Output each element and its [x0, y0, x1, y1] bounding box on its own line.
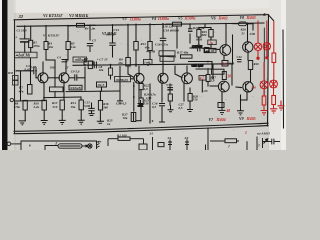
wire x163 below cap — [162, 42, 164, 66]
ground g13 — [237, 103, 244, 115]
svg-text:4,7: 4,7 — [199, 76, 205, 80]
ground g8 — [159, 115, 165, 122]
wire x205 split — [199, 27, 211, 29]
callout 1,5V box — [212, 69, 225, 74]
wire x190 lower — [189, 88, 191, 94]
loop symbol — [58, 144, 82, 148]
wire R19 drop — [210, 28, 212, 30]
svg-text:V1 КТ315Г: V1 КТ315Г — [43, 34, 60, 38]
wire V6 collector up — [225, 24, 227, 45]
svg-text:С13: С13 — [114, 28, 120, 32]
svg-text:27: 27 — [97, 140, 102, 144]
wire R4 rail left stub — [68, 25, 77, 27]
wire R10b drop — [110, 65, 112, 68]
svg-text:С28 0,5: С28 0,5 — [116, 102, 127, 106]
wire R21 to cap — [198, 44, 200, 48]
wire emitter V2 down — [63, 83, 65, 100]
svg-text:П403: П403 — [246, 15, 256, 20]
wire R21 below — [198, 37, 200, 44]
resistor R23 — [139, 98, 143, 105]
wire x100 drop — [99, 91, 101, 100]
svg-text:П308в: П308в — [184, 16, 196, 21]
callout box with red 4,7 — [199, 75, 206, 80]
wire x208 below R37 — [207, 82, 209, 87]
svg-text:R21 1,2к: R21 1,2к — [193, 26, 205, 30]
svg-text:R5: R5 — [84, 57, 88, 61]
scan noise speckles — [15, 20, 269, 150]
wire x162 below cap — [161, 107, 163, 122]
wire x211 below red box — [210, 45, 212, 49]
wire V8 collector up — [247, 24, 249, 42]
svg-text:560: 560 — [103, 105, 108, 109]
svg-text:V9: V9 — [239, 117, 244, 121]
wire x62 lower — [61, 110, 63, 120]
node dot g — [189, 23, 191, 25]
resistor R21 — [197, 30, 201, 38]
svg-text:≂1,5: ≂1,5 — [97, 83, 104, 87]
red resistor upper right — [272, 53, 276, 63]
node dot q — [133, 96, 135, 98]
wire x213 lower — [212, 65, 214, 80]
svg-text:47к: 47к — [18, 90, 24, 94]
wire V5 emitter down — [183, 84, 185, 102]
callout 1,5mV box — [97, 82, 107, 87]
node wire left vertical x20 — [20, 71, 22, 101]
wire V6 emitter down — [223, 56, 225, 61]
red wire right vertical mid — [273, 63, 275, 81]
wire base V6b — [210, 85, 219, 87]
wire emitter output V2 horizontal — [69, 77, 75, 79]
input connector box lower — [13, 81, 19, 86]
node dot c2 — [89, 24, 91, 26]
frame bottom line 2 — [14, 126, 268, 134]
red transistor X3 cross — [261, 81, 268, 88]
callout 0,5mV box — [159, 51, 175, 56]
wire x68 lower — [67, 50, 69, 61]
wire V1-V2 base link — [48, 77, 60, 79]
svg-text:≂0,1В: ≂0,1В — [205, 49, 215, 53]
wire x150 mid — [149, 51, 151, 60]
wire x211 R19 to red box — [210, 37, 212, 40]
red wire below X4 — [273, 88, 275, 96]
red resistor lower left — [262, 96, 266, 105]
svg-text:R4 1,0к: R4 1,0к — [85, 26, 96, 30]
wire R3 to callout — [54, 60, 56, 87]
wire x190 below C18 — [189, 34, 191, 43]
svg-text:+ С7 15: + С7 15 — [97, 58, 108, 62]
wire stage link y69 — [196, 68, 212, 70]
node dot e2 — [149, 24, 151, 26]
wire emitter V1 down — [43, 83, 45, 100]
wire C1 drop from rail — [24, 26, 26, 39]
wire R18 rail stubs — [166, 23, 173, 25]
red transistor X2 circle — [263, 43, 270, 50]
svg-text:510: 510 — [144, 102, 149, 106]
wire cap C2 to base V1 — [35, 71, 37, 78]
svg-text:R40: R40 — [254, 62, 260, 66]
wire x248 resistor low — [250, 70, 252, 83]
resistor x133 low vert — [131, 113, 136, 122]
svg-text:R38: R38 — [229, 62, 235, 66]
svg-text:32: 32 — [18, 14, 24, 19]
capacitor C19 series into V6 — [197, 45, 199, 52]
bottom right cap lead2 — [274, 141, 280, 143]
svg-text:1,0: 1,0 — [211, 79, 215, 83]
resistor R26b vert — [168, 94, 172, 101]
frame bottom line 1 — [14, 123, 268, 131]
book gutter black bar — [2, 0, 8, 150]
node dot l — [135, 64, 137, 66]
frame top — [14, 15, 269, 20]
svg-text:R1 100: R1 100 — [117, 133, 127, 137]
frame right — [268, 15, 269, 126]
svg-text:25В: 25В — [249, 32, 255, 36]
resistor R9 mid — [126, 58, 131, 67]
node dot o — [35, 70, 37, 72]
red transistor X2 cross — [264, 42, 270, 51]
bottom wire x108 vert — [107, 139, 109, 146]
node dot q4a — [43, 97, 45, 99]
wire R26 rail inline stubs — [232, 23, 239, 25]
red blob below X1 — [257, 57, 259, 59]
capacitor C17 small box — [205, 48, 210, 53]
svg-text:48: 48 — [226, 109, 231, 113]
svg-text:510: 510 — [53, 105, 58, 109]
svg-text:680: 680 — [202, 33, 207, 37]
terminal circle bottom left — [7, 142, 11, 146]
svg-text:≂2в(СМ): ≂2в(СМ) — [15, 54, 30, 58]
resistor R16 560 — [98, 101, 102, 111]
capacitor C8 coupling — [74, 74, 76, 80]
wire R1 drop — [30, 26, 32, 40]
capacitor C1 polarized — [20, 38, 30, 40]
node dot d2 — [127, 24, 129, 26]
svg-text:1,6: 1,6 — [223, 62, 228, 66]
capacitor C15 low — [159, 103, 165, 105]
svg-text:0,5: 0,5 — [152, 105, 156, 109]
wire x163 drop — [162, 23, 164, 38]
svg-text:6800: 6800 — [196, 38, 203, 42]
red wire right vertical top — [273, 21, 275, 53]
resistor x148 vert — [148, 42, 152, 51]
svg-text:2Г: 2Г — [64, 65, 69, 69]
ground small x91 — [89, 111, 94, 116]
red resistor lower right — [272, 96, 276, 105]
svg-text:2,2В: 2,2В — [29, 65, 37, 69]
svg-text:по АМ15: по АМ15 — [257, 131, 270, 135]
red transistor X3 circle — [260, 81, 268, 89]
svg-text:5,0В: 5,0В — [84, 104, 90, 108]
svg-text:С1 10,0: С1 10,0 — [17, 29, 28, 33]
ground g7 mid — [138, 100, 144, 107]
wire x141 short — [136, 120, 141, 122]
red ground low mid — [261, 111, 268, 115]
wire x148 below callout — [147, 64, 149, 65]
svg-text:2Д: 2Д — [184, 136, 190, 140]
arrow to circle — [82, 145, 87, 147]
transistor V4 — [158, 73, 168, 83]
wire x133 resistor down — [133, 113, 135, 122]
input connector box upper — [13, 76, 19, 81]
svg-text:П308в: П308в — [157, 16, 169, 21]
capacitor C22 small right — [237, 59, 242, 61]
red stub below X1 — [257, 51, 259, 59]
callout 2v(CM) box — [15, 52, 38, 58]
ground g10 — [187, 104, 193, 112]
wire V3 collector — [138, 66, 140, 73]
capacitor C15 bars — [88, 108, 94, 110]
bottom right cap lead — [263, 141, 272, 143]
wire R3 lower — [45, 50, 47, 61]
red transistor X4 circle — [270, 80, 278, 88]
svg-text:30: 30 — [227, 74, 232, 78]
svg-text:+С26: +С26 — [166, 83, 173, 87]
wire x85 to mid rail — [84, 67, 86, 90]
resistor R17 48k horizontal — [181, 55, 193, 58]
svg-text:П404: П404 — [216, 117, 226, 122]
transistor V1 — [38, 73, 48, 83]
resistor x134 vert — [134, 42, 138, 51]
svg-text:С21 0,25: С21 0,25 — [192, 63, 204, 67]
resistor R18 120 on rail — [173, 22, 182, 26]
wire x170 ground lead — [169, 101, 171, 105]
wire x190 drop C18 — [189, 24, 191, 29]
wire x205 drop — [204, 24, 206, 28]
bottom resistor wire left — [108, 138, 118, 140]
wire interstage x68 — [67, 26, 69, 42]
wire R18 right stub — [182, 23, 191, 25]
left input wire — [16, 70, 34, 72]
node dot k — [110, 64, 112, 66]
node dot b — [45, 25, 47, 27]
lower figure frame top — [21, 141, 97, 150]
red wire to ground left — [263, 105, 265, 110]
capacitor C13 — [109, 42, 115, 44]
wire stage link y61 — [189, 61, 213, 63]
wire R26 right stub — [247, 23, 254, 25]
svg-text:6800Е: 6800Е — [106, 32, 116, 36]
red wire right low — [273, 105, 275, 109]
bottom resistor wire right — [130, 138, 144, 140]
svg-text:П405: П405 — [246, 116, 256, 121]
red stub below X2 — [266, 50, 268, 58]
bottom right capacitor — [272, 139, 274, 145]
wire base V5 — [175, 74, 182, 78]
bottom mid vertical x152 — [152, 137, 154, 150]
wire x134 lower section — [133, 83, 135, 112]
coupling cap C8 lead — [77, 77, 85, 79]
red transistor X1 cross — [255, 44, 261, 50]
red ground right — [270, 109, 277, 113]
wire x177 below R18 — [176, 27, 178, 49]
svg-text:С9 5,0: С9 5,0 — [71, 70, 80, 74]
wire R21 drop — [198, 28, 200, 30]
resistor x248 vert — [248, 61, 252, 70]
wire V4 emitter down — [161, 83, 163, 102]
node dot s — [207, 61, 209, 63]
wire x141 below — [140, 105, 142, 109]
svg-text:220: 220 — [250, 86, 256, 90]
wire x208 R37 — [207, 69, 209, 75]
wire V4 collector — [162, 66, 164, 73]
resistor R13 — [60, 100, 64, 110]
node dot h — [225, 23, 227, 25]
ground g9 — [168, 105, 174, 112]
ground g11 — [219, 103, 226, 115]
svg-text:П308в: П308в — [129, 16, 141, 21]
svg-text:V8: V8 — [240, 16, 245, 20]
wire x112 below cap — [112, 47, 114, 58]
wire x81 lower — [80, 110, 82, 120]
paper background — [0, 0, 286, 150]
callout 0,5mV box lower — [50, 87, 64, 92]
svg-text:≂10мВ: ≂10мВ — [70, 86, 82, 90]
wire x128 drop — [127, 24, 129, 57]
callout 50mV box — [73, 57, 87, 62]
resistor R5h x84 — [84, 61, 93, 65]
callout box with red 1k — [208, 40, 216, 45]
wire V1 collector vertical — [42, 62, 44, 73]
crossed circle connector — [88, 144, 92, 148]
resistor R1 beside C1 — [29, 40, 33, 47]
node dot i — [247, 22, 249, 24]
resistor R28 vert — [188, 94, 192, 102]
bottom right module box — [206, 141, 248, 150]
red wire below X3 — [263, 89, 265, 96]
wire x101 upper — [101, 87, 103, 91]
wire x25 lower — [24, 110, 26, 121]
callout 0M(D) box — [115, 77, 131, 82]
bottom right vertical x257 — [256, 137, 258, 151]
svg-text:С5: С5 — [92, 39, 96, 43]
svg-text:V2 МП41Б: V2 МП41Б — [69, 13, 89, 18]
capacitor C11 ground mid — [138, 103, 144, 105]
resistor R26 on rail — [239, 22, 247, 26]
svg-text:1,0: 1,0 — [144, 87, 148, 91]
capacitor C5 — [87, 43, 93, 45]
svg-text:V4: V4 — [152, 17, 157, 21]
wire y91 bus — [66, 90, 120, 93]
wire R4 rail right stub — [85, 24, 96, 26]
wire x30 input box drop — [30, 59, 32, 85]
wire V2 collector — [65, 60, 67, 73]
transistor V7a lower — [218, 81, 229, 92]
wire base V7 — [236, 86, 242, 89]
red ground far right — [278, 101, 285, 111]
resistor R3 470k — [44, 42, 48, 50]
bottom right diode arrow — [263, 138, 268, 148]
svg-text:С4: С4 — [57, 56, 61, 60]
wire V3 emitter down — [138, 84, 140, 101]
red wire X2 upper — [266, 21, 268, 43]
adjacent page edge line — [282, 30, 285, 128]
wire cap into V6 lead — [190, 47, 197, 49]
red transistor X1 circle — [254, 43, 261, 50]
resistor R8 lower left — [23, 100, 27, 110]
svg-text:V3: V3 — [122, 17, 127, 21]
svg-text:≂0,4В: ≂0,4В — [146, 50, 156, 54]
ground g3 — [59, 120, 66, 124]
wire x120 to ground — [119, 91, 121, 101]
wire x112 drop cap C13 — [112, 25, 114, 43]
wire x240 small — [240, 95, 242, 103]
wire from terminal — [11, 143, 21, 145]
transistor V5 — [182, 73, 193, 84]
top supply rail — [17, 23, 264, 26]
resistor R4 1,0k on rail — [77, 23, 85, 27]
wire V7 emitter down — [246, 92, 248, 100]
wire R10b to callout — [110, 75, 112, 79]
wire emitter jog — [241, 99, 248, 101]
wire x44 lower — [43, 110, 45, 120]
svg-text:10к: 10к — [71, 105, 76, 109]
resistor R6 small — [88, 61, 92, 68]
svg-text:V1 КТ315Г: V1 КТ315Г — [43, 13, 63, 18]
bottom wire drop x143 — [143, 139, 145, 144]
transistor V9a lower right — [243, 82, 253, 92]
svg-text:1к: 1к — [209, 41, 213, 45]
ground g5 — [97, 121, 104, 123]
svg-text:С16 0,5м: С16 0,5м — [155, 43, 168, 47]
wire x128 resistor to base — [127, 66, 129, 74]
wire x232 upper — [232, 35, 234, 64]
wire x170 lower — [169, 84, 171, 94]
terminal circle frame edge — [10, 98, 13, 101]
node dot q4b — [63, 97, 65, 99]
callout 10mV box — [69, 85, 82, 90]
bottom right resistor box — [225, 139, 237, 143]
svg-text:С22: С22 — [237, 55, 243, 59]
wire x90 drop to C5 — [89, 25, 91, 40]
red blob below X2 — [266, 57, 268, 59]
svg-text:V5: V5 — [178, 17, 183, 21]
capacitor C2 series input — [33, 67, 35, 74]
node dot m — [149, 63, 151, 65]
wire x91 cap stem — [91, 103, 93, 108]
node dot e — [135, 24, 137, 26]
wire into base V1 — [36, 77, 38, 79]
wire mid rail to V5 base — [174, 66, 176, 74]
ground bus left — [15, 100, 46, 102]
wire C1 lower lead — [24, 42, 26, 52]
svg-text:П402: П402 — [218, 15, 228, 20]
svg-text:V6: V6 — [211, 16, 216, 20]
wire R1 lower — [30, 48, 32, 53]
wire x150 drop — [149, 24, 151, 42]
resistor bottom R low mid — [118, 137, 130, 140]
wire x150 lower — [149, 84, 151, 123]
node dot j — [84, 64, 86, 66]
resistor R19 680 — [209, 30, 213, 38]
svg-text:2А: 2А — [167, 136, 173, 140]
svg-text:100: 100 — [50, 65, 55, 69]
svg-text:1Д8: 1Д8 — [146, 96, 152, 100]
svg-text:1: 1 — [245, 131, 247, 135]
wire x68 jog to V2 — [66, 59, 68, 61]
wire V8 emitter down — [247, 53, 249, 61]
wire base V3 — [128, 74, 134, 78]
svg-text:43к: 43к — [47, 45, 53, 49]
wire right column x264 — [263, 28, 265, 96]
wire V6 emitter to ground — [221, 92, 223, 104]
transistor V2 — [59, 73, 69, 83]
wire drop x212 — [211, 62, 213, 70]
resistor R7 vertical left — [28, 85, 33, 95]
capacitor C7 coupling series — [93, 62, 95, 69]
wire x190 ground drop — [189, 101, 191, 104]
bottom right wire y141 — [210, 140, 225, 142]
wire R3 drop — [45, 26, 47, 42]
